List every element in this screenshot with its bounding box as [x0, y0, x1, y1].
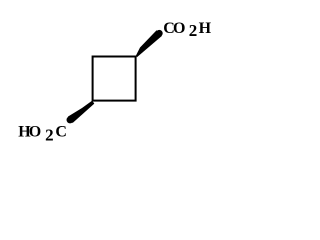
svg-text:C: C [55, 124, 67, 141]
svg-text:O: O [173, 20, 185, 37]
svg-text:2: 2 [189, 21, 198, 40]
svg-text:H: H [199, 20, 212, 37]
wedge bond to CO2H (up-right, bold wedge) [136, 30, 163, 57]
svg-text:O: O [29, 124, 41, 141]
wedge bond to HO2C (down-left, bold wedge) [67, 101, 95, 124]
cyclobutane ring [93, 57, 136, 101]
svg-text:2: 2 [45, 126, 54, 145]
